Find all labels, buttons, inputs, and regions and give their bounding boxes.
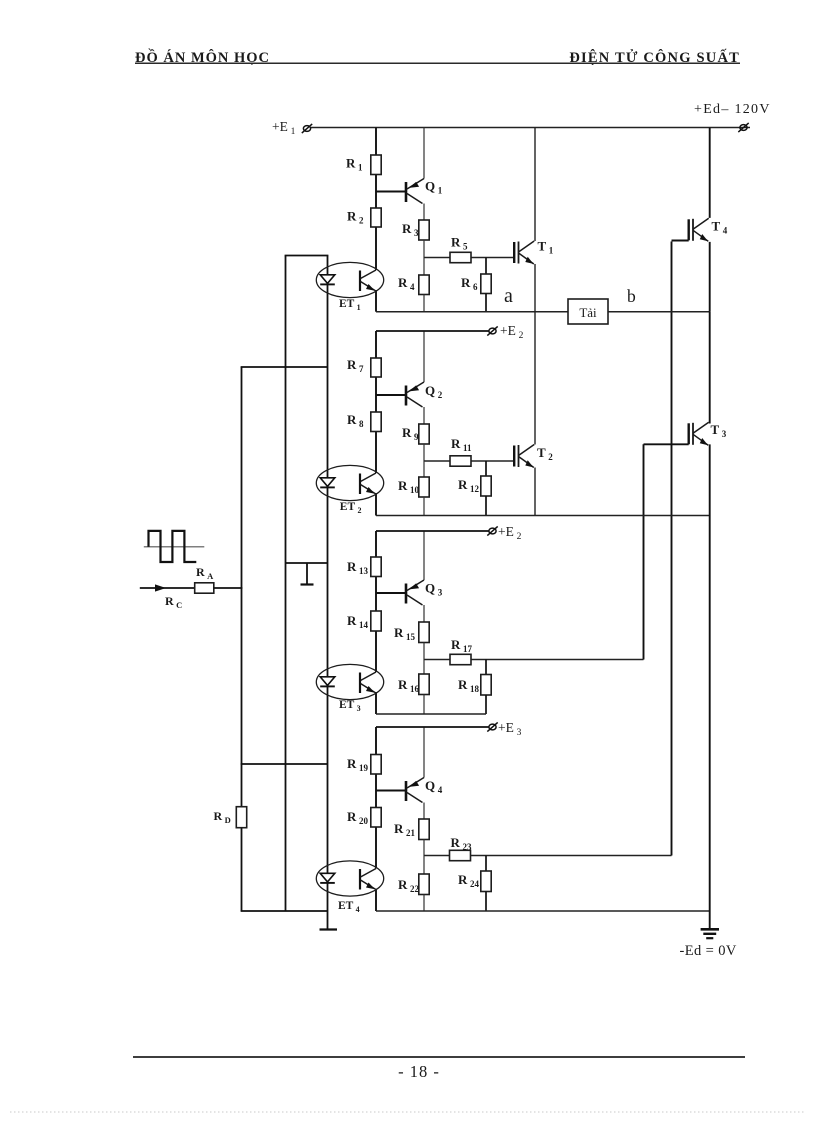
net +E3 rail wire <box>376 530 489 532</box>
svg-text:a: a <box>504 285 513 307</box>
resistor R19 <box>371 755 381 775</box>
wire cell4 opto emitter to bottom rail <box>375 889 377 912</box>
wire cell1 left vertical (rail to opto) <box>375 128 377 271</box>
label T1 <box>538 239 554 256</box>
footer rule <box>133 1056 745 1058</box>
wire cell1 opto emitter to bottom rail <box>375 290 377 312</box>
header title right <box>569 49 740 66</box>
label R3 <box>402 221 419 238</box>
wire R18 bottom lead <box>485 695 487 714</box>
label -Ed = 0V <box>680 943 737 959</box>
wire RD to bottom <box>241 828 243 911</box>
ground symbol under LED chain <box>320 928 338 930</box>
wire input node vertical bus <box>241 367 243 807</box>
label R7 <box>347 357 364 374</box>
resistor R9 <box>419 424 429 444</box>
transistor Q1 <box>406 179 424 204</box>
wire Q2 emitter down <box>423 407 425 424</box>
label T3 <box>711 422 727 439</box>
wire Q4 emitter down <box>423 803 425 820</box>
transistor Q2 <box>406 382 424 407</box>
resistor R22 <box>419 874 429 895</box>
wire R6 top lead <box>485 258 487 275</box>
optocoupler ET1 <box>316 262 383 297</box>
net cell2 emitter rail <box>376 515 710 517</box>
net -Ed ground rail <box>376 910 710 912</box>
label R8 <box>347 412 364 429</box>
label R9 <box>402 425 419 442</box>
label R11 <box>451 436 472 453</box>
wire cell2 gate drive line <box>424 460 514 462</box>
label R17 <box>451 637 473 654</box>
resistor R15 <box>419 622 429 643</box>
ground symbol mid-left <box>301 563 314 585</box>
wire cell3 gate drive line <box>424 659 644 661</box>
wire branch input to LED chain (upper) <box>241 366 328 368</box>
label R21 <box>394 821 416 838</box>
label RC <box>165 594 182 610</box>
resistor R18 <box>481 675 491 696</box>
svg-text:Tải: Tải <box>579 305 597 320</box>
igbt T2 <box>514 445 534 468</box>
wire cell2 opto emitter to bottom rail <box>375 493 377 516</box>
net +E2 rail wire <box>376 330 489 332</box>
label ET4 <box>338 900 360 914</box>
wire R4 top lead <box>423 258 425 276</box>
wire Q4 base lead <box>376 790 406 792</box>
label R6 <box>461 275 478 292</box>
wire Q1 emitter down <box>423 204 425 221</box>
wire R3 to node <box>423 240 425 258</box>
wire Q2 collector to rail <box>423 331 425 382</box>
label R4 <box>398 275 415 292</box>
wire cell3 opto emitter to bottom rail <box>375 692 377 714</box>
break symbol +E4 <box>487 722 497 731</box>
wire cell4 gate drive line <box>424 855 672 857</box>
resistor RC <box>195 583 214 593</box>
label R15 <box>394 625 416 642</box>
label R18 <box>458 677 480 694</box>
header title left <box>135 48 270 66</box>
svg-text:b: b <box>627 286 636 306</box>
resistor R3 <box>419 220 429 240</box>
label R20 <box>347 809 369 826</box>
label R12 <box>458 477 480 494</box>
label +E3 <box>498 524 522 542</box>
label +Ed = 120V <box>694 102 771 117</box>
resistor R1 <box>371 155 381 175</box>
wire T4 gate lead <box>672 240 689 242</box>
wire Q3 collector to rail <box>423 531 425 580</box>
net node-a rail (T1 emitter / T2 collector) <box>376 311 710 313</box>
label T4 <box>712 219 728 236</box>
label node a <box>504 285 513 307</box>
wire R24 bottom lead <box>485 892 487 912</box>
wire Q1 collector to rail <box>423 128 425 179</box>
break symbol left of +E1 rail <box>302 124 312 133</box>
wire R21 to node <box>423 840 425 856</box>
label R5 <box>451 235 468 252</box>
resistor RD <box>236 807 246 828</box>
svg-text:-Ed = 0V: -Ed = 0V <box>680 943 737 959</box>
label R10 <box>398 478 420 495</box>
label Q1 <box>425 179 443 196</box>
input square-wave signal symbol <box>144 531 205 562</box>
label +E1 <box>272 119 296 137</box>
wire cell3 left vertical (rail to opto) <box>375 531 377 672</box>
wire R12 bottom lead <box>485 496 487 516</box>
label node b <box>627 286 636 306</box>
break symbol +E2 <box>487 326 497 335</box>
wire T3 collector to node b <box>709 312 711 424</box>
wire RC to node <box>214 587 243 589</box>
wire T4 emitter to node b <box>709 242 711 312</box>
transistor Q3 <box>406 580 424 605</box>
wire R15 to node <box>423 643 425 660</box>
wire R22 bottom lead <box>423 895 425 912</box>
label ET1 <box>339 298 361 312</box>
wire R12 top lead <box>485 461 487 476</box>
label Q4 <box>425 778 443 795</box>
input wire with arrow into RC <box>140 584 195 591</box>
wire T3 emitter down to -Ed <box>709 444 711 911</box>
wire T4 collector to +Ed rail <box>709 128 711 218</box>
wire Q4 collector to rail <box>423 727 425 778</box>
optocoupler ET2 <box>316 465 383 500</box>
break symbol right of +Ed rail <box>738 123 748 132</box>
label R1 <box>346 156 363 173</box>
wire T4 gate riser <box>671 242 673 856</box>
wire R10 bottom lead <box>423 497 425 516</box>
load Tai box <box>568 299 608 324</box>
wire R22 top lead <box>423 856 425 875</box>
wire T1 collector to +E1 rail <box>534 128 536 242</box>
wire R10 top lead <box>423 461 425 477</box>
label +E2 <box>500 323 524 341</box>
resistor R8 <box>371 412 381 432</box>
net cell3 emitter rail <box>376 713 486 715</box>
label R13 <box>347 559 369 576</box>
wire Q3 base lead <box>376 592 406 594</box>
label R2 <box>347 209 364 226</box>
label +E4 <box>498 720 522 738</box>
resistor R6 <box>481 274 491 294</box>
resistor R7 <box>371 358 381 377</box>
svg-text:- 18 -: - 18 - <box>398 1062 440 1081</box>
label ET3 <box>339 699 361 713</box>
resistor R20 <box>371 808 381 828</box>
wire cell1 gate drive line <box>424 257 514 259</box>
resistor R23 <box>450 850 471 860</box>
wire branch input to LED chain (lower) <box>241 763 328 765</box>
wire Q1 base lead <box>376 191 406 193</box>
resistor R16 <box>419 674 429 695</box>
igbt T3 <box>689 422 709 445</box>
wire R6 bottom lead <box>485 294 487 312</box>
net +E1 rail wire <box>311 127 750 129</box>
footer page number <box>398 1062 440 1081</box>
wire Q3 emitter down <box>423 605 425 622</box>
wire R24 top lead <box>485 856 487 872</box>
optocoupler ET4 <box>316 861 383 896</box>
label R16 <box>398 677 420 694</box>
wire T3 gate riser <box>643 444 645 659</box>
resistor R11 <box>450 456 471 466</box>
wire cell4 left vertical (rail to opto) <box>375 727 377 869</box>
label R23 <box>451 835 473 852</box>
label ET2 <box>340 501 362 515</box>
label Q2 <box>425 383 443 400</box>
wire LED chain vertical <box>327 256 329 930</box>
resistor R2 <box>371 208 381 227</box>
label RD <box>214 809 231 825</box>
igbt T1 <box>514 241 534 264</box>
ground symbol -Ed <box>701 911 719 938</box>
resistor R12 <box>481 476 491 496</box>
resistor R24 <box>481 871 491 892</box>
break symbol +E3 <box>487 526 497 535</box>
wire mid branch to ground <box>286 562 328 564</box>
label Q3 <box>425 581 443 598</box>
label T2 <box>537 445 553 462</box>
wire R16 top lead <box>423 660 425 675</box>
igbt T4 <box>689 218 709 241</box>
wire R16 bottom lead <box>423 695 425 715</box>
wire T2 emitter to cell2 rail <box>534 468 536 516</box>
wire return bus vertical <box>285 256 287 912</box>
resistor R4 <box>419 275 429 295</box>
label R19 <box>347 756 369 773</box>
wire Q2 base lead <box>376 394 406 396</box>
optocoupler ET3 <box>316 664 383 699</box>
net +E4 rail wire <box>376 726 489 728</box>
wire R18 top lead <box>485 660 487 675</box>
wire T1 emitter to node a <box>534 264 536 312</box>
resistor R10 <box>419 477 429 497</box>
wire R4 bottom lead <box>423 295 425 312</box>
label R14 <box>347 613 369 630</box>
label RA <box>196 565 214 581</box>
svg-text:+Ed– 120V: +Ed– 120V <box>694 102 771 117</box>
wire T3 gate lead <box>644 443 689 445</box>
resistor R14 <box>371 611 381 631</box>
resistor R13 <box>371 557 381 577</box>
label R22 <box>398 877 420 894</box>
wire T2 collector to node a <box>534 312 536 445</box>
label R24 <box>458 872 480 889</box>
resistor R17 <box>450 654 471 664</box>
transistor Q4 <box>406 778 424 803</box>
wire cell2 left vertical (rail to opto) <box>375 331 377 473</box>
bottom dotted separator <box>10 1111 806 1113</box>
wire R9 to node <box>423 444 425 461</box>
resistor R5 <box>450 252 471 262</box>
resistor R21 <box>419 819 429 840</box>
header rule <box>135 62 740 64</box>
wire branch to LED chain top <box>285 255 329 257</box>
wire bottom-left horizontal to LED chain <box>241 910 328 912</box>
